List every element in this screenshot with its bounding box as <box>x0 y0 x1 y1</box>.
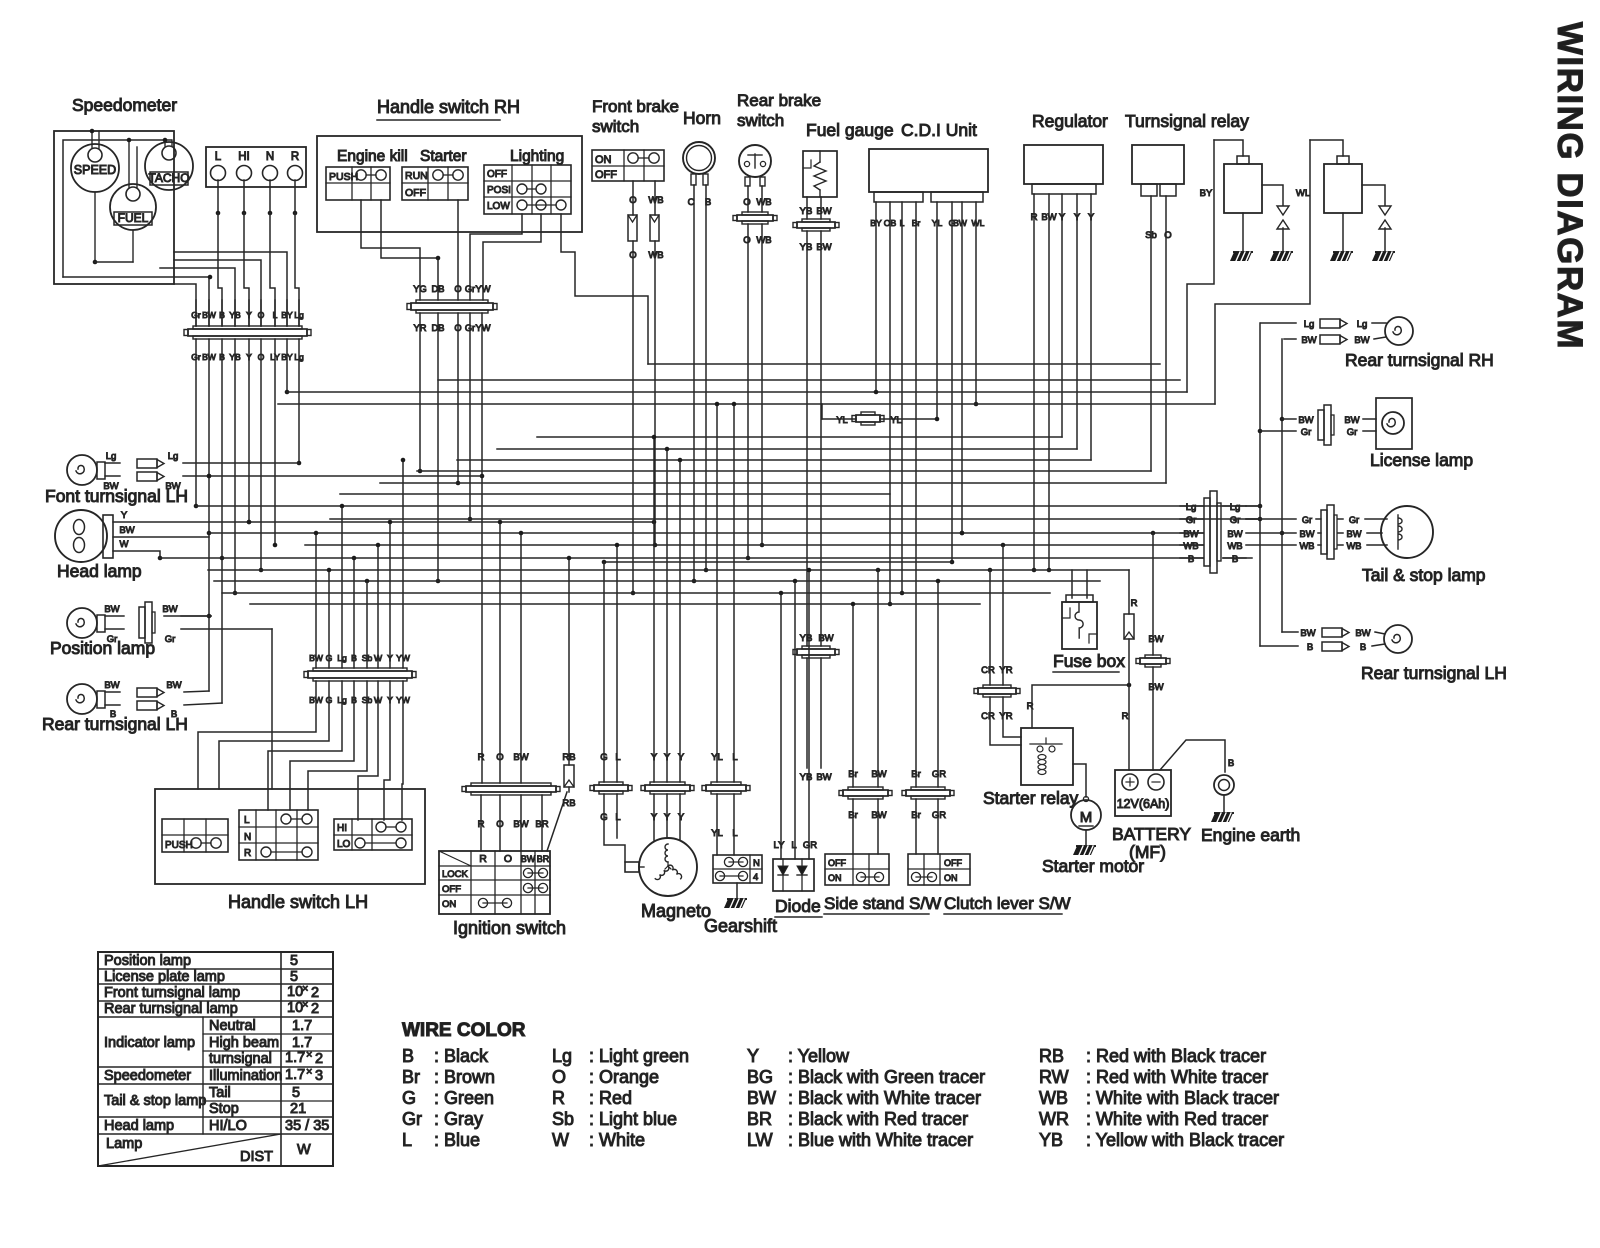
svg-text:R: R <box>1122 711 1129 722</box>
side stand switch box <box>825 854 889 885</box>
svg-text:N: N <box>244 832 251 843</box>
svg-text:BW: BW <box>165 481 180 492</box>
svg-text:Handle switch RH: Handle switch RH <box>377 97 520 117</box>
wire B column <box>220 339 225 703</box>
labels 9-pin top <box>191 310 304 320</box>
handle switch LH box <box>155 789 425 884</box>
CR YR wires upper <box>981 545 1013 722</box>
connector 8-pin <box>304 668 416 681</box>
bullet connector O <box>628 215 637 241</box>
svg-text:ON: ON <box>442 899 456 910</box>
title WIRING DIAGRAM (vertical) <box>1550 22 1589 350</box>
starter label <box>420 148 467 165</box>
rear brake switch <box>739 145 771 186</box>
svg-text:Neutral: Neutral <box>209 1018 256 1034</box>
magneto <box>639 838 697 896</box>
turnsignal relay label <box>1125 111 1249 131</box>
svg-text:5: 5 <box>290 969 298 985</box>
svg-text:RB: RB <box>1039 1046 1064 1066</box>
svg-text:BW: BW <box>1148 634 1163 645</box>
svg-text:N: N <box>753 858 760 869</box>
svg-text:YL: YL <box>890 415 901 425</box>
svg-text:OFF: OFF <box>595 169 617 181</box>
wire bus Y1 y437 <box>537 436 1062 438</box>
svg-text:Sb: Sb <box>552 1109 574 1129</box>
svg-text:Lg: Lg <box>1186 502 1197 513</box>
svg-text:HI/LO: HI/LO <box>209 1118 247 1134</box>
wire reg Y3 <box>1090 194 1092 460</box>
wire Lg right of connector <box>1246 505 1261 507</box>
svg-text:Lg: Lg <box>294 310 304 320</box>
svg-text:G: G <box>402 1088 416 1108</box>
ignition switch table <box>439 851 550 914</box>
turnsignal relay box <box>1132 145 1184 196</box>
gearshift YL L wires <box>711 402 737 839</box>
svg-text:High beam: High beam <box>209 1035 279 1051</box>
svg-text:Engine earth: Engine earth <box>1201 825 1300 845</box>
gauge FUEL <box>110 184 156 230</box>
svg-text:LOCK: LOCK <box>442 869 469 880</box>
svg-text:5: 5 <box>292 1085 300 1101</box>
wire bus y494 <box>340 493 890 495</box>
wire L column <box>273 339 278 547</box>
connector YL inline <box>836 412 901 425</box>
svg-text:Position lamp: Position lamp <box>104 953 191 969</box>
lamp rating table <box>98 952 333 1166</box>
svg-text:Lg: Lg <box>168 451 179 462</box>
svg-text:Handle switch LH: Handle switch LH <box>228 892 368 912</box>
wire bus y593 <box>222 592 1050 594</box>
svg-text:WB: WB <box>648 195 663 206</box>
svg-text:: Black: : Black <box>434 1046 489 1066</box>
wire relay Sb <box>1150 196 1152 471</box>
svg-text:Y: Y <box>747 1046 759 1066</box>
wire CDI L <box>900 202 905 595</box>
svg-text:Rear brake: Rear brake <box>737 91 821 110</box>
svg-text:: Red: : Red <box>589 1088 632 1108</box>
labels ignition conn top <box>478 752 529 763</box>
rear turnsignal RH label <box>1345 350 1494 370</box>
wires front brake to bullets <box>629 181 663 215</box>
svg-text:Head lamp: Head lamp <box>57 561 142 581</box>
wire bus B y558 <box>160 557 1203 559</box>
engine earth wire <box>1160 740 1234 772</box>
fuel inline connector 2 <box>793 646 839 658</box>
rear brake switch label <box>737 91 821 130</box>
svg-text:: White with Black tracer: : White with Black tracer <box>1086 1088 1279 1108</box>
svg-text:OFF: OFF <box>944 858 962 868</box>
wires indicator connector to harness <box>216 180 299 326</box>
connector 9-pin main harness <box>184 326 311 339</box>
wire YB column <box>233 339 238 595</box>
svg-text:OFF: OFF <box>828 858 846 868</box>
flasher 2 supply wire <box>1215 140 1343 404</box>
svg-text:LOW: LOW <box>487 201 510 212</box>
fuel gauge sender <box>803 151 837 197</box>
rear brake wires upper <box>743 186 771 212</box>
svg-text:Front turnsignal lamp: Front turnsignal lamp <box>104 985 240 1001</box>
magneto label <box>641 901 711 921</box>
svg-text:BY: BY <box>1200 188 1213 199</box>
wires Y Y Y lower <box>654 794 680 840</box>
connector 5-pin rear harness <box>1204 491 1221 573</box>
svg-text:12V(6Ah): 12V(6Ah) <box>1117 797 1170 811</box>
svg-text:Indicator lamp: Indicator lamp <box>104 1035 195 1051</box>
starter switch box <box>402 167 468 200</box>
side stand connector <box>839 787 892 799</box>
ignition connector <box>462 783 560 795</box>
handle switch RH label <box>377 97 520 120</box>
svg-text:Gr: Gr <box>1230 515 1241 526</box>
svg-text:L: L <box>273 310 278 320</box>
diode wires <box>774 568 818 859</box>
engine kill switch box <box>326 167 390 200</box>
svg-text:BATTERY: BATTERY <box>1112 824 1191 844</box>
labels RH connector bottom <box>414 323 491 333</box>
wire Lg feed rear RH <box>1258 323 1263 646</box>
svg-text:: Light blue: : Light blue <box>589 1109 677 1129</box>
svg-text:SPEED: SPEED <box>74 163 116 177</box>
svg-text:BW: BW <box>816 206 831 217</box>
svg-text:Gr: Gr <box>191 310 201 320</box>
svg-text:BW: BW <box>871 769 886 780</box>
rear connector left stubs <box>1180 506 1203 558</box>
svg-text:BW: BW <box>1355 628 1370 639</box>
svg-text:Illumination: Illumination <box>209 1068 282 1084</box>
handle switch LH label <box>228 892 368 912</box>
position lamp label <box>50 638 155 658</box>
svg-text:LO: LO <box>337 839 351 850</box>
front LH Lg wire <box>105 451 299 468</box>
LH turnsignal switch box <box>239 810 318 860</box>
wire bus Y head y522 <box>113 520 656 525</box>
svg-text:YB: YB <box>800 242 813 253</box>
svg-text:Ignition switch: Ignition switch <box>453 918 566 938</box>
svg-text:Y: Y <box>121 510 128 521</box>
svg-text:YB: YB <box>800 633 813 644</box>
clutch lever label <box>944 894 1071 914</box>
front brake switch label <box>592 97 679 136</box>
svg-text:L: L <box>215 151 222 163</box>
horn <box>683 142 715 185</box>
wire Gr column <box>194 339 199 508</box>
svg-text:: White: : White <box>589 1130 645 1150</box>
wire YR column <box>418 313 423 473</box>
svg-text:L: L <box>791 840 796 851</box>
labels rear connector left <box>1183 502 1198 565</box>
wire Lg column <box>297 339 302 465</box>
svg-text:L: L <box>615 752 620 763</box>
starter motor label <box>1042 856 1144 876</box>
svg-text:WB: WB <box>1183 541 1198 552</box>
svg-text:: Red with Black tracer: : Red with Black tracer <box>1086 1046 1266 1066</box>
license lamp label <box>1370 450 1473 470</box>
svg-text:N: N <box>266 151 274 163</box>
flasher 2 diode branch <box>1362 185 1394 261</box>
svg-text:BW: BW <box>162 604 177 615</box>
svg-text:Engine kill: Engine kill <box>337 148 408 165</box>
head lamp W wire <box>113 539 162 560</box>
starter motor ground <box>1073 830 1095 855</box>
CR YR wires lower <box>990 697 1021 745</box>
fuel gauge wires upper <box>800 197 832 219</box>
svg-text:YL: YL <box>836 415 847 425</box>
svg-text:1.7: 1.7 <box>292 1018 312 1034</box>
engine earth label <box>1201 825 1300 845</box>
svg-text:Gr: Gr <box>1301 427 1312 438</box>
wire bus y380 <box>438 379 1180 381</box>
license lamp box <box>1376 398 1412 449</box>
svg-text:HI: HI <box>238 151 250 163</box>
fuel wires mid <box>800 231 834 646</box>
svg-text:OFF: OFF <box>442 884 461 895</box>
svg-text:Lamp: Lamp <box>106 1136 142 1152</box>
svg-text:CR: CR <box>981 665 995 676</box>
svg-text:Head lamp: Head lamp <box>104 1118 174 1134</box>
svg-text:WIRE COLOR: WIRE COLOR <box>402 1020 526 1041</box>
svg-text:R: R <box>244 848 251 859</box>
wire bus Y3 y460 <box>457 459 1091 461</box>
svg-text:BW: BW <box>104 604 119 615</box>
svg-text:RW: RW <box>1039 1067 1069 1087</box>
svg-text:Br: Br <box>402 1067 420 1087</box>
svg-text:: Gray: : Gray <box>434 1109 483 1129</box>
svg-text:: Yellow: : Yellow <box>788 1046 850 1066</box>
wire Y column <box>247 339 252 524</box>
gauge SPEED <box>71 144 119 192</box>
wire bus y562 G <box>602 560 952 565</box>
svg-text:(MF): (MF) <box>1129 842 1166 862</box>
svg-text:YB: YB <box>800 772 813 783</box>
svg-text:CR: CR <box>981 711 995 722</box>
clutch wires lower <box>916 799 938 854</box>
wire CDI OB <box>888 202 893 606</box>
front brake switch box <box>592 150 664 181</box>
wire CDI BY <box>875 202 877 392</box>
tail connector <box>1321 505 1337 559</box>
svg-text:Rear turnsignal RH: Rear turnsignal RH <box>1345 350 1494 370</box>
side stand wires upper <box>848 570 886 821</box>
svg-text:WL: WL <box>972 218 985 228</box>
svg-text:3: 3 <box>315 1068 323 1084</box>
svg-text:ON: ON <box>828 873 842 883</box>
svg-text:Fuse box: Fuse box <box>1053 651 1125 671</box>
svg-text:LY: LY <box>774 840 786 851</box>
wires 8-pin to dimmer <box>358 681 403 820</box>
labels RH connector top <box>413 284 490 294</box>
battery <box>1115 770 1171 816</box>
svg-text:YB: YB <box>800 206 813 217</box>
svg-text:WL: WL <box>1296 188 1310 199</box>
svg-text:WB: WB <box>756 235 771 246</box>
wire reg Y1 <box>1061 194 1063 437</box>
flasher 2 to ground <box>1330 213 1352 261</box>
svg-text:×: × <box>306 1049 312 1061</box>
wire relay R <box>1027 683 1132 728</box>
svg-text:BW: BW <box>818 633 833 644</box>
svg-text:10: 10 <box>287 984 303 1000</box>
svg-text:O: O <box>743 235 750 246</box>
svg-text:BW: BW <box>103 481 118 492</box>
svg-text:BW: BW <box>1227 529 1242 540</box>
wire YL stubs <box>822 404 939 421</box>
svg-text:PUSH: PUSH <box>329 171 358 183</box>
svg-text:Tail & stop lamp: Tail & stop lamp <box>1362 565 1486 585</box>
svg-text:TACHO: TACHO <box>148 171 189 185</box>
engine kill label <box>337 148 408 165</box>
svg-text:OFF: OFF <box>487 169 507 180</box>
magneto Y Y Y connector <box>641 752 694 823</box>
svg-text:Gearshift: Gearshift <box>704 916 777 936</box>
speedometer label <box>72 95 177 115</box>
svg-text:Gr: Gr <box>1186 515 1197 526</box>
wire bus y483 <box>380 482 1166 484</box>
svg-text:Lg: Lg <box>1230 502 1241 513</box>
labels 8-pin bottom <box>309 695 411 705</box>
wires G L rising <box>604 543 619 782</box>
wire relay to starter motor <box>1073 764 1089 802</box>
svg-text:GR: GR <box>803 840 817 851</box>
magneto G L connector <box>590 752 632 823</box>
svg-text:Lg: Lg <box>552 1046 572 1066</box>
svg-text:M: M <box>1080 809 1093 826</box>
wire WB down <box>648 241 663 547</box>
svg-text:: Blue with White tracer: : Blue with White tracer <box>788 1130 973 1150</box>
magneto earth lug <box>625 862 644 872</box>
LH passing switch box <box>162 819 228 852</box>
position BW wire <box>104 602 211 643</box>
wire bus Y2 y449 <box>497 448 1077 450</box>
engine earth <box>1211 775 1234 822</box>
gearshift ground <box>724 883 746 908</box>
svg-text:4: 4 <box>753 872 758 883</box>
svg-text:O: O <box>454 284 461 294</box>
svg-text:O: O <box>258 310 265 320</box>
wire O down <box>629 241 636 595</box>
svg-text:B: B <box>402 1046 414 1066</box>
svg-text:BW: BW <box>202 310 217 320</box>
svg-text:Side stand S/W: Side stand S/W <box>824 894 941 913</box>
svg-text:×: × <box>306 1066 312 1078</box>
head lamp BW wire <box>113 525 209 537</box>
svg-text:ON: ON <box>944 873 958 883</box>
svg-text:Starter: Starter <box>420 148 467 165</box>
labels CDI pins <box>870 218 984 228</box>
svg-text:×: × <box>302 999 308 1011</box>
wire bus y604 <box>250 603 980 605</box>
LH dimmer switch box <box>334 819 412 850</box>
wire Gr right of connector <box>1246 518 1257 520</box>
svg-text:Speedometer: Speedometer <box>104 1068 191 1084</box>
flasher 1 to ground <box>1230 213 1252 261</box>
svg-text:: Orange: : Orange <box>589 1067 659 1087</box>
svg-text:BW: BW <box>1300 628 1315 639</box>
head lamp label <box>57 561 142 581</box>
svg-text:BW: BW <box>1300 529 1315 539</box>
fuel inline connector 1 <box>793 219 839 231</box>
rear brake wires lower <box>743 224 771 560</box>
svg-text:O: O <box>552 1067 566 1087</box>
labels rear connector right <box>1227 502 1242 565</box>
svg-text:×: × <box>302 983 308 995</box>
svg-text:Gr: Gr <box>1347 427 1358 438</box>
svg-text:2: 2 <box>311 1001 319 1017</box>
tail WB wire <box>1246 541 1387 551</box>
rear turnsignal RH bulb <box>1385 317 1413 345</box>
svg-text:Turnsignal relay: Turnsignal relay <box>1125 111 1249 131</box>
svg-text:: Light green: : Light green <box>589 1046 689 1066</box>
svg-text:: Blue: : Blue <box>434 1130 480 1150</box>
svg-text:Gr: Gr <box>1302 515 1312 525</box>
svg-text:DIST: DIST <box>240 1149 273 1165</box>
bullet connector WB <box>650 215 659 241</box>
svg-text:B: B <box>171 709 177 720</box>
battery label <box>1112 824 1191 862</box>
speedometer internal wires <box>90 129 172 265</box>
wire position Gr down <box>271 629 273 789</box>
svg-text:B: B <box>1232 554 1238 565</box>
wire bus y570 <box>208 568 1129 573</box>
fuel wires lower <box>800 658 832 783</box>
position lamp bulb <box>67 608 105 638</box>
wire bus WL y404 <box>278 403 1215 405</box>
wire bus y471 <box>417 470 1151 472</box>
svg-text:: Yellow with Black tracer: : Yellow with Black tracer <box>1086 1130 1284 1150</box>
flasher unit 2 box <box>1324 156 1362 213</box>
wires ignition rising <box>498 520 524 783</box>
ignition switch label <box>453 918 566 938</box>
license BW wire <box>1282 405 1376 445</box>
wires G L lower <box>604 794 625 862</box>
svg-text:B: B <box>1188 554 1194 565</box>
svg-text:BW: BW <box>816 772 831 783</box>
rear turnsignal LH right label <box>1361 663 1507 683</box>
svg-text:Gr: Gr <box>107 634 118 645</box>
rear LH left BW wire <box>104 680 209 697</box>
svg-text:B: B <box>110 709 116 720</box>
svg-text:WB: WB <box>648 250 663 261</box>
svg-text:WIRING DIAGRAM: WIRING DIAGRAM <box>1550 22 1589 350</box>
svg-text:1.7: 1.7 <box>285 1050 305 1066</box>
connector 5-pin handle RH <box>407 300 497 313</box>
fuse box feed wires <box>1072 570 1087 598</box>
svg-text:21: 21 <box>290 1101 306 1117</box>
svg-text:Position lamp: Position lamp <box>50 638 155 658</box>
svg-text:BG: BG <box>747 1067 773 1087</box>
gearshift label <box>704 916 777 936</box>
wire RB diagonal <box>547 787 569 851</box>
wire relay O <box>1165 196 1167 483</box>
handle switch RH box <box>317 136 582 232</box>
svg-text:Y: Y <box>678 812 685 823</box>
svg-text:: Black with Red tracer: : Black with Red tracer <box>788 1109 968 1129</box>
svg-text:YL: YL <box>711 752 723 763</box>
gauge TACHO <box>145 142 193 190</box>
svg-text:C: C <box>688 197 695 208</box>
svg-text:YG: YG <box>413 284 426 294</box>
side stand label <box>824 894 941 914</box>
tail stop lamp bulb <box>1381 506 1433 558</box>
svg-text:O: O <box>629 250 636 261</box>
front turnsignal LH label <box>45 486 188 506</box>
svg-text:YR: YR <box>999 711 1012 722</box>
svg-text:WB: WB <box>1039 1088 1068 1108</box>
svg-text:O: O <box>504 853 512 865</box>
wires into 9-pin connector top <box>196 300 299 326</box>
svg-text:B: B <box>1307 642 1313 653</box>
svg-text:C.D.I Unit: C.D.I Unit <box>901 120 977 140</box>
wire CDI WL <box>974 202 979 406</box>
